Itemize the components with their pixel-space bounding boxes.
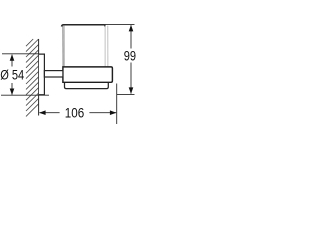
- holder ring: [63, 67, 113, 82]
- dim Ø54 down arrow: [10, 89, 15, 96]
- dim Ø54 line lower segment: [11, 83, 13, 95]
- dim 106 right extension line: [116, 84, 118, 125]
- glass right wall outer line: [107, 26, 109, 68]
- svg-text:Ø 54: Ø 54: [0, 66, 24, 83]
- dim Ø54 top extension line: [2, 53, 39, 55]
- dim Ø54 up arrow: [10, 54, 15, 61]
- dim Ø54 bottom extension line: [1, 94, 49, 96]
- mounting arm: [44, 71, 63, 77]
- dim 99 line upper segment: [130, 25, 132, 48]
- wall line: [38, 39, 40, 116]
- dim Ø54 line upper segment: [11, 55, 13, 67]
- glass rim top edge: [62, 25, 105, 27]
- escutcheon wall plate: [39, 54, 45, 95]
- wall hatching: [26, 39, 39, 116]
- dim 99 bottom extension line: [117, 93, 135, 95]
- dim 106 right arrow: [110, 110, 117, 115]
- dim 106 left arrow: [39, 110, 46, 115]
- glass left wall outer line: [62, 26, 64, 68]
- dim 106 line right segment: [89, 112, 116, 114]
- dim 106 line left segment: [39, 112, 59, 114]
- dim 99 up arrow: [129, 25, 134, 32]
- glass right wall inner line: [104, 26, 106, 68]
- glass left wall inner line: [63, 26, 65, 68]
- svg-text:99: 99: [124, 47, 136, 64]
- dim 99 top extension line: [105, 23, 135, 25]
- glass lower body: [65, 81, 109, 89]
- svg-text:106: 106: [65, 104, 84, 120]
- dim 99 down arrow: [129, 87, 134, 94]
- dim 99 line lower segment: [130, 63, 132, 94]
